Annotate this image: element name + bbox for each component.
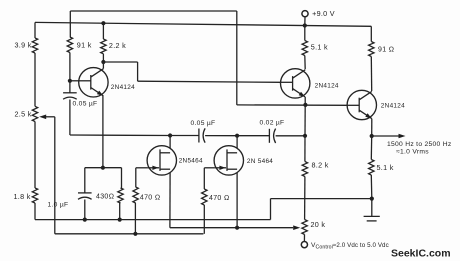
wire Q1 emitter drop [102,96,104,168]
transistor JFET1 2N5464 [147,146,176,175]
wire emitter node horizontal [85,167,122,169]
label C2 0.05uF [191,120,216,127]
wire 2.2k to collector node [102,54,104,62]
wire 2.5k wiper drop [54,117,56,234]
node ground junction [370,197,374,201]
wire 1.0uF top lead [84,168,86,193]
node +9V junction [303,23,307,27]
wire 5.1k to ground node [370,175,373,199]
wire JFET1 drain lead [169,136,171,149]
wire phase line segment A [103,134,170,136]
wire 5.1k top lead [304,26,306,41]
resistor 2.5k potentiometer [32,106,37,121]
wire Q1 collector to Q2 base [103,62,281,82]
resistor 3.9k [32,38,37,53]
resistor 1.8k [32,188,37,203]
capacitor 0.05uF C1 [63,93,77,99]
resistor 2.2k [101,39,106,54]
wire 470ohm-2 bottom lead [203,205,205,234]
wire 1.8k bottom lead [34,203,36,220]
wire 2.2k top lead [102,23,104,39]
label output freq [387,141,452,148]
svg-text:2N 5464: 2N 5464 [247,158,273,165]
wire 8.2k to 20k [304,177,306,220]
svg-text:2N4124: 2N4124 [315,83,339,90]
wire 5.1k to Q2 collector [304,56,306,70]
wire JFET1 gate lead [136,168,147,187]
label 2.5k [15,110,32,119]
wire +9V rail [35,22,371,26]
label 5.1k top [311,43,328,52]
label 470ohm-1 [140,194,161,201]
wire source bus [170,227,293,229]
wiper arrow of 20k [293,225,300,230]
transistor JFET2 2N5464 [214,146,243,175]
node JFET2 drain junction [235,134,239,138]
label Q1 2N4124 [111,84,135,91]
wire 3.9k to 2.5k [34,53,36,106]
label Vcontrol [311,242,389,251]
wire 91ohm top lead [370,26,372,41]
wire Q3 emitter to 5.1k [370,136,372,160]
wire Q1 base [70,80,79,82]
wire Q3 emitter lead [371,119,373,136]
wire JFET2 gate lead [204,168,214,189]
label JFET2 2N5464 [247,158,273,165]
svg-text:1500 Hz to 2500 Hz: 1500 Hz to 2500 Hz [387,141,452,148]
svg-text:2N5464: 2N5464 [179,157,203,164]
svg-text:≈1.0 Vrms: ≈1.0 Vrms [396,148,429,155]
label +9.0V [312,9,335,18]
svg-text:5.1 k: 5.1 k [311,43,328,52]
wire output with arrow [372,134,406,139]
svg-text:430Ω: 430Ω [96,194,114,201]
wire JFET2 source drop [236,173,238,228]
wire phase line segment C [205,135,237,137]
wire phase line segment B [170,135,199,137]
capacitor 0.05uF C2 [199,128,205,142]
wiper arrow of 2.5k [39,115,55,120]
svg-text:0.05 µF: 0.05 µF [191,120,216,127]
label 91ohm [378,47,394,54]
label 1.0uF [48,202,69,209]
svg-text:470 Ω: 470 Ω [140,194,161,201]
svg-text:5.1 k: 5.1 k [377,163,394,172]
node 470ohm-1 wiper junction [133,232,137,236]
wire Q2 emitter lead [304,97,306,105]
wire phase line segment E [276,135,305,137]
node 430ohm ground junction [118,218,122,222]
label 5.1k bottom [377,163,394,172]
resistor 20k [302,220,307,235]
node 1.0uF ground junction [83,218,87,222]
resistor 8.2k [302,162,307,177]
wire to 8.2k [304,136,306,162]
label 470ohm-2 [209,195,230,202]
label 1.8k [14,192,31,201]
svg-text:2N4124: 2N4124 [111,84,135,91]
wire phase line segment D [237,135,269,137]
label 91k [77,40,92,49]
wire 430ohm top lead [121,168,123,188]
node JFET1 drain junction [168,133,172,137]
wire 91k top riser [69,11,71,37]
label 3.9k [15,41,32,50]
capacitor 0.02uF C3 [269,129,275,143]
label JFET1 2N5464 [179,157,203,164]
svg-text:8.2 k: 8.2 k [312,161,329,170]
transistor Q1 2N4124 [79,68,108,97]
wire JFET1 source drop [169,173,171,228]
label C3 0.02uF [260,120,285,127]
label output level [396,148,429,155]
resistor 470ohm-2 [202,189,207,205]
wire 470ohm-1 bottom lead [134,203,136,234]
label C1 0.05uF [73,101,98,108]
wire C1 to phase-shift line [70,100,103,136]
ground symbol [364,199,380,221]
wire wiper rail [55,233,204,235]
svg-text:91 Ω: 91 Ω [378,47,394,54]
svg-text:2.5 k: 2.5 k [15,110,32,119]
node Q2 emitter junction [303,103,307,107]
resistor 91ohm [369,42,374,57]
svg-text:470 Ω: 470 Ω [209,195,230,202]
node 8.2k top junction [303,134,307,138]
wire top rail [70,10,237,12]
wire Q2 emitter node drop [304,105,306,136]
wire base node to C1 [69,81,71,93]
wire Q2 emitter to Q3 base [237,104,347,106]
wire 430ohm bottom lead [119,203,121,220]
resistor 5.1k top [302,41,307,56]
node Q1 base junction [68,79,72,83]
label 2.2k [109,41,126,50]
resistor 470ohm-1 [133,187,138,203]
label 20k [311,220,326,229]
transistor Q2 2N4124 [281,69,310,98]
node Q1 emitter junction [101,166,105,170]
label Q2 2N4124 [315,83,339,90]
label 8.2k [312,161,329,170]
node 2.2k top junction [101,21,105,25]
svg-text:91 k: 91 k [77,40,92,49]
wire ground rail [35,199,372,220]
label 430ohm [96,194,114,201]
label Q3 2N4124 [381,103,405,110]
svg-text:1.8 k: 1.8 k [14,192,31,201]
svg-text:3.9 k: 3.9 k [15,41,32,50]
svg-text:2.2 k: 2.2 k [109,41,126,50]
capacitor 1.0uF [78,193,92,199]
svg-text:0.02 µF: 0.02 µF [260,120,285,127]
resistor 430ohm [118,188,123,203]
transistor Q3 2N4124 [347,90,376,119]
resistor 91k [67,37,72,53]
svg-text:+9.0 V: +9.0 V [312,9,335,18]
node source bus junction [235,226,239,230]
wire JFET2 drain lead [236,136,238,149]
svg-text:20 k: 20 k [311,220,326,229]
node output junction [370,134,374,138]
svg-text:0.05 µF: 0.05 µF [73,101,98,108]
wire 91ohm to Q3 collector [370,57,372,92]
wire 91k to Q1 base node [69,53,71,81]
terminal +9.0V [302,11,308,26]
wire 1.0uF bottom lead [84,200,86,220]
watermark SeekIC.com [391,248,451,260]
terminal Vcontrol [301,235,307,248]
wire Q1 collector lead [102,62,104,69]
svg-text:SeekIC.com: SeekIC.com [391,248,451,260]
node Q1 collector junction [101,60,105,64]
wire left bias column top [34,22,36,38]
svg-text:2N4124: 2N4124 [381,103,405,110]
wire 2.5k to 1.8k [34,122,36,189]
resistor 5.1k bottom [369,160,374,176]
svg-text:1.0 µF: 1.0 µF [48,202,69,209]
wire 2N4124 Q2 emitter drop from top rail [236,11,238,105]
